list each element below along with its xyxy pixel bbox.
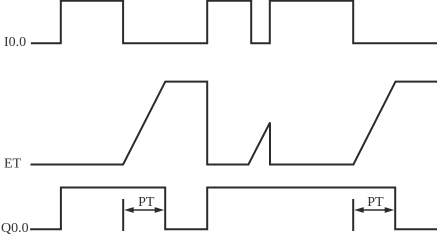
svg-text:I0.0: I0.0 xyxy=(4,35,26,50)
svg-text:PT: PT xyxy=(138,195,155,210)
svg-text:ET: ET xyxy=(4,156,22,171)
PT dimension tick 2 xyxy=(352,199,354,231)
ET waveform xyxy=(31,82,437,165)
PT dimension arrow 1 xyxy=(124,207,164,213)
I0.0 waveform xyxy=(31,1,437,44)
svg-text:PT: PT xyxy=(367,195,384,210)
svg-text:Q0.0: Q0.0 xyxy=(1,221,29,236)
PT dimension tick 1 xyxy=(122,199,124,231)
Q0.0 waveform xyxy=(30,188,437,230)
PT dimension arrow 2 xyxy=(354,207,394,213)
